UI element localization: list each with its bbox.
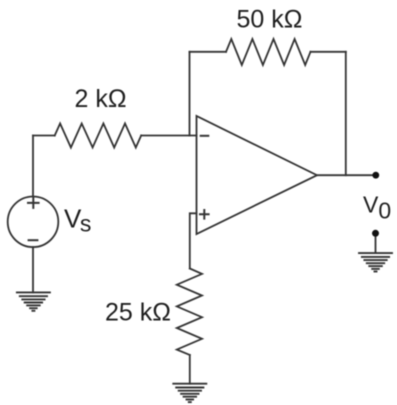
node output dot — [372, 172, 379, 179]
ground left — [17, 292, 50, 310]
wire output — [317, 174, 376, 176]
wire source bottom to ground — [32, 247, 34, 292]
svg-text:V0: V0 — [363, 192, 391, 224]
op-amp U1 — [197, 116, 318, 234]
resistor 50 kOhm feedback — [226, 39, 311, 65]
wire V0 node to ground — [375, 233, 377, 253]
svg-text:25 kΩ: 25 kΩ — [105, 299, 171, 327]
wire input left horizontal — [33, 135, 55, 137]
svg-text:2 kΩ: 2 kΩ — [75, 85, 127, 113]
svg-text:50 kΩ: 50 kΩ — [237, 6, 303, 34]
wire feedback right vertical — [345, 52, 347, 175]
wire feedback top right — [311, 51, 346, 53]
svg-text:Vs: Vs — [64, 203, 91, 236]
wire feedback top left — [190, 51, 227, 53]
resistor 2 kOhm — [55, 124, 142, 148]
wire source top to input — [32, 136, 34, 197]
voltage source Vs — [8, 197, 59, 248]
node V0 ground dot — [372, 230, 379, 237]
ground bottom — [173, 384, 206, 402]
op-amp plus label — [200, 210, 209, 219]
wire resistor 25k to ground — [189, 355, 191, 384]
minus sign inside source — [29, 239, 38, 241]
wire noninverting stub — [190, 213, 197, 268]
ground right — [359, 253, 392, 271]
op-amp minus label — [201, 135, 209, 137]
plus sign inside source — [28, 198, 39, 208]
wire resistor to inverting input — [141, 135, 196, 137]
wire feedback left vertical — [189, 52, 191, 136]
resistor 25 kOhm — [177, 269, 202, 356]
